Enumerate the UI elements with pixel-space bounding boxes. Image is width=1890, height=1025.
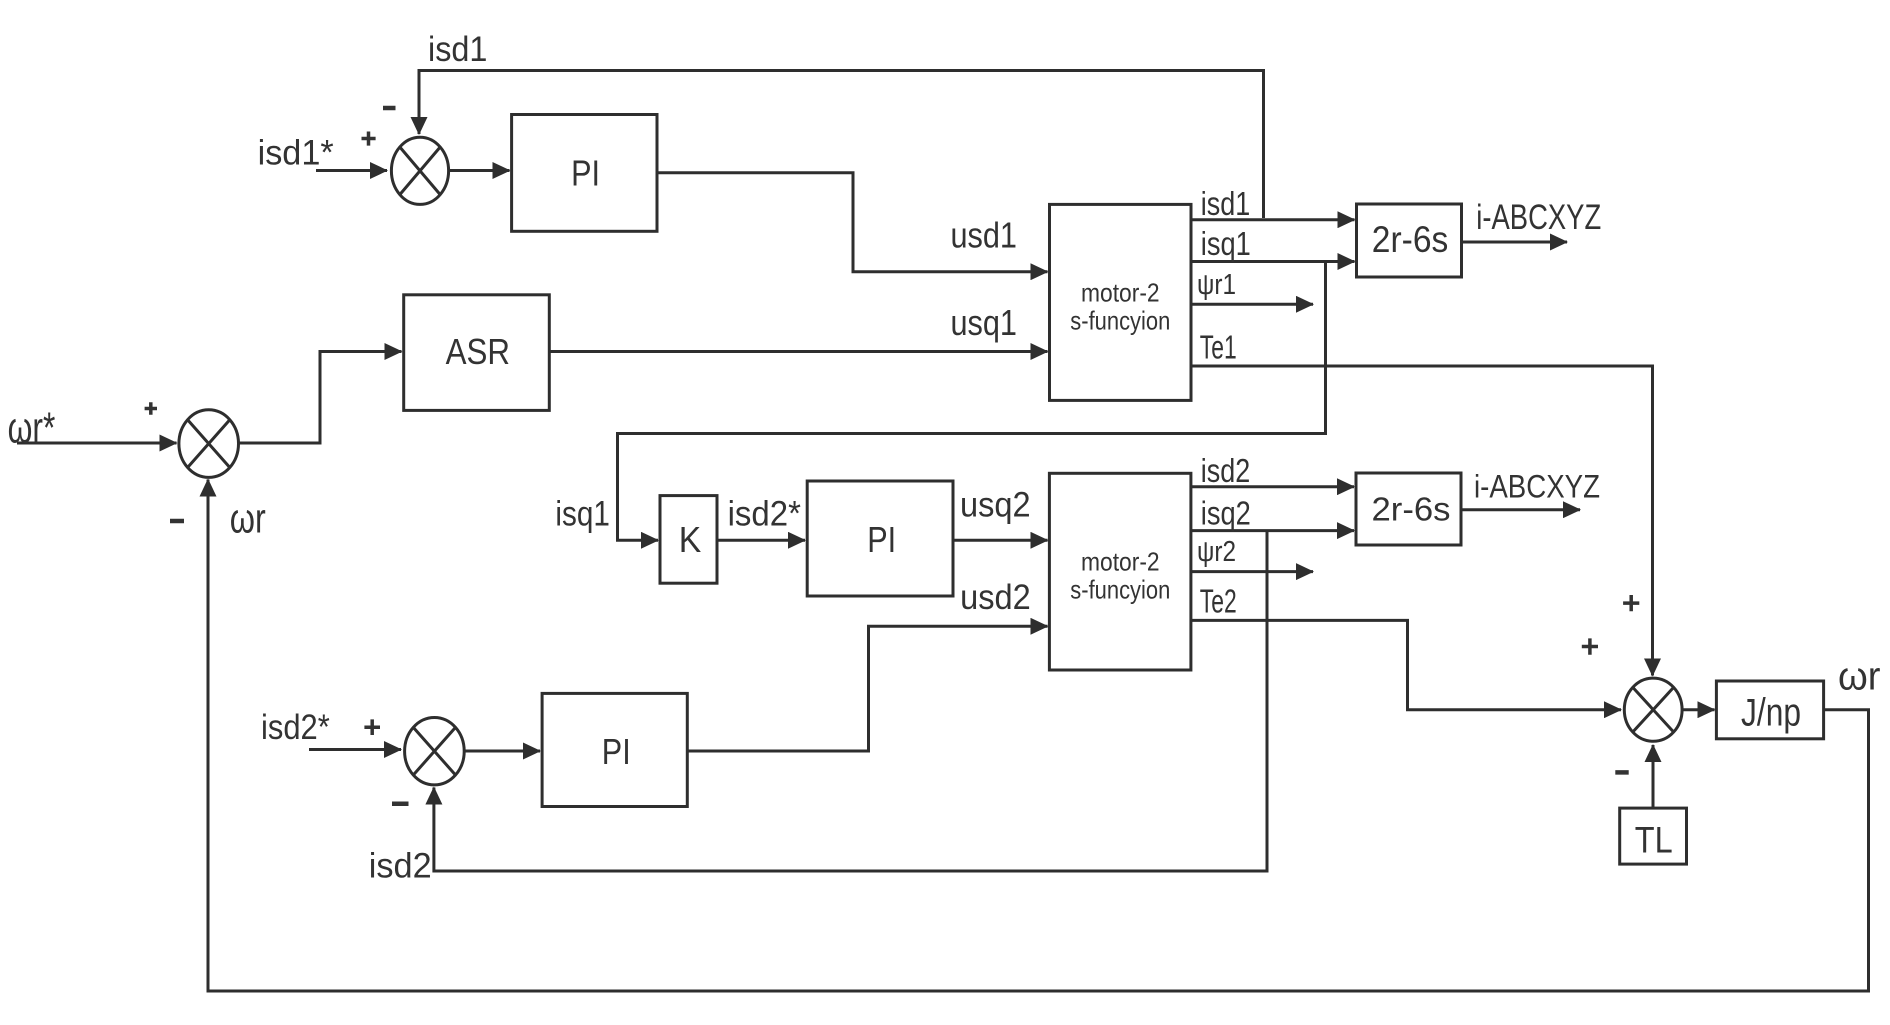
svg-text:isd2*: isd2* [261,708,330,747]
svg-text:usq2: usq2 [960,486,1031,525]
wire ASR output usq1 into motor1 [549,350,1047,353]
minus sign at S4 bottom input [1615,770,1628,775]
svg-text:isq1: isq1 [1201,225,1251,262]
svg-text:2r-6s: 2r-6s [1372,490,1451,527]
wire S3 to PI3 [464,750,540,753]
wire S1 to PI1 [449,169,510,172]
svg-text:ASR: ASR [446,331,510,372]
wire S4 to J/np [1682,708,1714,711]
wire PI1 output usd1 into motor1 [657,173,1048,272]
svg-text:usd2: usd2 [960,578,1031,617]
block K [660,496,717,584]
wire motor2 psi-r2 output arrow [1191,570,1313,573]
wire motor1 psi-r1 output arrow [1191,303,1313,306]
wire isd2* input into S3 [309,748,401,751]
svg-text:PI: PI [867,519,896,560]
svg-text:ωr: ωr [230,494,266,541]
wire S2 output up into ASR [239,352,402,444]
wire TL up into S4 bottom [1652,745,1655,808]
wire isd2 feedback from isq2 line down and into S3 bottom [434,531,1267,871]
wire motor1 isd1 output to 2r-6s [1191,218,1355,221]
svg-text:ψr1: ψr1 [1197,269,1236,301]
svg-text:isd1*: isd1* [258,134,334,173]
wire motor2 isd2 output to 2r-6s [1191,485,1354,488]
svg-text:TL: TL [1635,820,1673,861]
svg-text:ωr*: ωr* [8,404,56,453]
svg-text:i-ABCXYZ: i-ABCXYZ [1474,469,1600,505]
wire PI2 output usq2 into motor2 [953,539,1048,542]
svg-text:isd2*: isd2* [728,495,802,534]
svg-text:isd1: isd1 [428,30,487,69]
svg-text:ψr2: ψr2 [1197,536,1236,568]
wire wr* input into S2 [17,442,177,445]
svg-text:ωr: ωr [1838,654,1881,698]
block ASR [404,295,550,411]
svg-text:isd2: isd2 [369,846,432,885]
svg-text:PI: PI [571,153,600,194]
svg-text:usq1: usq1 [951,302,1018,343]
svg-text:J/np: J/np [1741,692,1801,735]
wire PI3 output usd2 into motor2 [687,626,1047,751]
block 2r-6s no.1 [1357,204,1462,277]
block motor-2 s-funcyion no.2 [1049,473,1191,670]
svg-text:Te1: Te1 [1200,328,1237,365]
svg-text:motor-2: motor-2 [1081,546,1160,576]
block PI U2 [807,481,953,596]
block J/np [1716,681,1823,739]
svg-text:s-funcyion: s-funcyion [1070,574,1170,604]
svg-text:isq2: isq2 [1201,494,1251,531]
svg-text:2r-6s: 2r-6s [1372,219,1449,260]
plus sign at S2 left input [145,402,157,414]
plus sign at S4 left input [1582,638,1598,654]
minus sign at S2 bottom input [170,519,184,524]
summing junction S2 [179,410,239,478]
block PI U3 [542,693,687,806]
summing junction S1 [391,137,448,204]
svg-text:isd2: isd2 [1201,452,1250,489]
svg-text:PI: PI [602,731,631,772]
block 2r-6s no.2 [1356,473,1461,545]
svg-text:s-funcyion: s-funcyion [1070,305,1170,335]
wire isd1* input into S1 [316,169,387,172]
summing junction S4 [1624,678,1682,741]
svg-text:isd1: isd1 [1201,185,1250,222]
svg-text:motor-2: motor-2 [1081,277,1160,307]
wire motor2 isq2 output to 2r-6s [1191,529,1354,532]
block motor-2 s-funcyion no.1 [1050,204,1192,400]
plus sign at S4 top input [1623,595,1639,611]
plus sign at S1 left input [362,132,376,146]
svg-text:Te2: Te2 [1200,583,1237,620]
svg-text:isq1: isq1 [555,495,610,534]
block TL [1620,808,1687,864]
wire 2r-6s no.1 output i-ABCXYZ [1462,241,1568,244]
wire J/np output wr bottom feedback into S2 bottom [208,480,1869,992]
wire isq1 tap down into K [618,262,1326,541]
block PI U1 [512,115,657,232]
wire motor1 Te1 output to S4 top [1191,366,1653,676]
minus sign at S3 bottom input [392,802,409,807]
wire isd1 feedback (motor1 isd1 tap up and into S1 top) [419,71,1264,219]
plus sign at S3 left input [364,719,380,735]
wire motor1 isq1 output to 2r-6s [1191,260,1355,263]
wire motor2 Te2 output to S4 left [1191,620,1621,709]
summing junction S3 [405,718,465,785]
wire 2r-6s no.2 output i-ABCXYZ [1462,508,1581,511]
svg-text:i-ABCXYZ: i-ABCXYZ [1476,198,1601,237]
wire K output isd2* into PI2 [717,539,805,542]
svg-text:usd1: usd1 [951,215,1018,256]
svg-text:K: K [679,519,702,560]
minus sign at S1 top input [383,106,396,111]
